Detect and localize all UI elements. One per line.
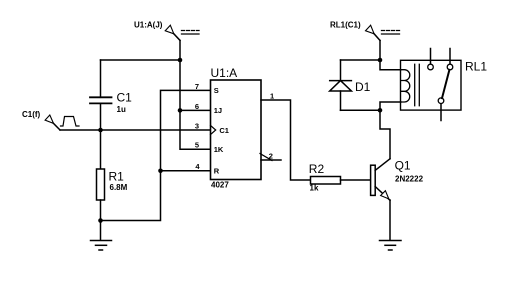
svg-text:U1:A(J): U1:A(J) bbox=[134, 21, 163, 30]
probe U1:A(J) terminal bbox=[165, 25, 180, 40]
probe U1:A(J) dashes bbox=[182, 31, 200, 35]
svg-text:1k: 1k bbox=[310, 184, 319, 193]
svg-text:RL1(C1): RL1(C1) bbox=[330, 21, 361, 30]
svg-text:R: R bbox=[214, 167, 220, 176]
ground left bbox=[91, 241, 112, 251]
relay core bbox=[415, 64, 420, 105]
probe RL1(C1) terminal bbox=[366, 25, 381, 40]
svg-text:4027: 4027 bbox=[211, 180, 229, 189]
node junction J/K bbox=[178, 108, 183, 113]
node junction bottom (D1/coil/collector) bbox=[378, 108, 383, 113]
wire R2 to base bbox=[341, 179, 371, 181]
svg-text:C1(f): C1(f) bbox=[22, 110, 41, 119]
probe RL1(C1) dashes bbox=[382, 31, 400, 35]
wire bottom rail D1 to node bbox=[341, 109, 381, 111]
wire top rail D1 to node bbox=[341, 59, 381, 61]
relay switch arm bbox=[442, 70, 449, 98]
wire C1 bottom stub bbox=[100, 103, 102, 130]
svg-text:1K: 1K bbox=[214, 145, 224, 154]
svg-text:U1:A: U1:A bbox=[211, 66, 238, 80]
node junction top (probe/D1/coil) bbox=[378, 58, 383, 63]
wire 1J pin branch bbox=[180, 109, 211, 111]
resistor R2 bbox=[311, 177, 341, 185]
wire pin 1 output to R2 bbox=[261, 100, 311, 180]
svg-text:1J: 1J bbox=[214, 106, 222, 115]
pulse waveform symbol bbox=[61, 117, 80, 127]
node junction S/R bbox=[158, 169, 163, 174]
wire top rail to J node bbox=[101, 59, 181, 61]
svg-text:R1: R1 bbox=[109, 170, 125, 184]
relay common contact circle bbox=[438, 98, 444, 104]
wire ground rail to S/R pins bbox=[101, 90, 211, 220]
wire coil bottom feed bbox=[380, 102, 401, 110]
svg-text:Q1: Q1 bbox=[395, 159, 411, 173]
svg-text:RL1: RL1 bbox=[465, 60, 487, 74]
svg-text:D1: D1 bbox=[355, 80, 371, 94]
relay contact circle NO bbox=[447, 64, 453, 70]
relay contact terminal stubs bbox=[431, 49, 451, 121]
resistor R1 bbox=[97, 130, 105, 240]
svg-text:1u: 1u bbox=[117, 105, 126, 114]
wire C1 top stub bbox=[100, 60, 102, 97]
node junction C1/R1/input bbox=[98, 128, 103, 133]
svg-text:S: S bbox=[214, 86, 219, 95]
svg-text:6.8M: 6.8M bbox=[110, 183, 128, 192]
node junction R1/ground rail bbox=[98, 218, 103, 223]
wire J/K vertical bbox=[180, 41, 211, 150]
wire collector to relay/diode node bbox=[380, 110, 390, 159]
relay coil bbox=[401, 70, 410, 102]
svg-text:R2: R2 bbox=[309, 162, 325, 176]
wire input rail to clock pin 3 bbox=[60, 129, 211, 131]
svg-text:3: 3 bbox=[195, 121, 199, 130]
svg-text:7: 7 bbox=[195, 82, 199, 91]
ground right bbox=[380, 241, 402, 251]
svg-text:6: 6 bbox=[195, 102, 199, 111]
svg-text:5: 5 bbox=[195, 141, 199, 150]
wire R pin branch bbox=[161, 170, 211, 172]
pin 2 slash mark bbox=[260, 154, 272, 161]
flip-flop U1:A body bbox=[211, 80, 262, 180]
capacitor C1 bbox=[90, 97, 112, 103]
svg-text:2N2222: 2N2222 bbox=[395, 175, 424, 184]
probe C1(f) input terminal bbox=[45, 115, 60, 130]
pin 2 no-connect stub bbox=[261, 159, 281, 161]
relay contact circle NC bbox=[428, 64, 434, 70]
svg-text:C1: C1 bbox=[219, 126, 229, 135]
node junction top rail/probe bbox=[178, 58, 183, 63]
svg-text:C1: C1 bbox=[117, 91, 133, 105]
wire coil top feed bbox=[380, 60, 401, 70]
diode D1 bbox=[330, 60, 352, 110]
wire emitter to ground bbox=[389, 200, 391, 240]
clock chevron pin 3 bbox=[211, 126, 216, 135]
transistor Q1 bbox=[371, 159, 390, 201]
wire probe to top node bbox=[379, 41, 381, 61]
relay RL1 body bbox=[401, 60, 462, 110]
